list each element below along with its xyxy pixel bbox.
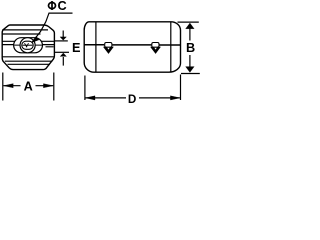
A dimension line [3, 85, 53, 87]
E bottom arrow [62, 57, 64, 66]
right cap vertical [170, 22, 172, 72]
svg-text:B: B [186, 41, 195, 55]
pin 2 taper [151, 47, 160, 53]
E top arrow [62, 31, 64, 38]
rope strand marks [25, 43, 29, 47]
A right extension line [53, 73, 55, 101]
svg-text:E: E [72, 41, 80, 55]
svg-text:C: C [58, 0, 67, 13]
center slot stadium [14, 38, 43, 53]
pin 2 head [152, 43, 159, 48]
D right extension line [180, 75, 182, 101]
A left arrowhead [3, 84, 13, 88]
B dimension line upper [189, 28, 191, 41]
band line y30 [2, 29, 48, 31]
label Phi symbol [49, 3, 56, 9]
pin 1 head [105, 43, 112, 48]
B top arrowhead [186, 23, 195, 29]
slot lower line y44.6 [2, 44, 54, 46]
mid seam line [84, 44, 180, 46]
B bottom arrowhead [186, 67, 195, 73]
svg-text:D: D [128, 93, 136, 106]
D right arrowhead [170, 96, 180, 100]
B top extension line [178, 21, 199, 23]
leader arrowhead to hole [32, 36, 39, 42]
D dimension line [86, 97, 180, 99]
rope outer circle [20, 38, 35, 53]
band line y34 [2, 33, 40, 35]
svg-text:A: A [24, 80, 33, 94]
D left extension line [84, 76, 86, 101]
D left arrowhead [85, 96, 95, 100]
slot seam segments [14, 44, 42, 46]
band line y56.6 [2, 56, 54, 58]
right facet line y46.8 [46, 46, 54, 48]
A left extension line [2, 73, 4, 101]
E top extension line [55, 40, 68, 42]
band line y64.3 [8, 63, 50, 65]
leader line PhiC [33, 13, 73, 42]
left view sleeve outline [2, 25, 54, 70]
E bottom extension line [55, 51, 69, 53]
rope hole oval C [22, 41, 33, 49]
right view capsule outline [84, 22, 180, 72]
B dimension line lower [189, 55, 191, 67]
rope center line [23, 44, 33, 46]
slot upper line y41.3 [2, 40, 54, 42]
band line y61.2 [5, 60, 53, 62]
B bottom extension line [181, 73, 200, 75]
A right arrowhead [43, 84, 53, 88]
pin 1 taper [104, 47, 113, 53]
left cap vertical [95, 22, 97, 72]
